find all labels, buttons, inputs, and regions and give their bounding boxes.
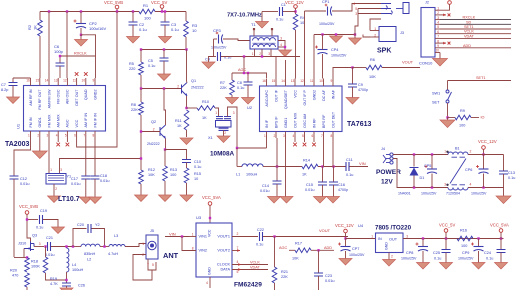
svg-text:AM MIX: AM MIX <box>57 114 61 128</box>
svg-text:TA7613: TA7613 <box>347 121 371 128</box>
wire VIN into U3 <box>165 236 189 238</box>
svg-text:0.01u: 0.01u <box>71 182 81 186</box>
svg-text:R8: R8 <box>131 103 136 107</box>
wire pin14 drop <box>48 12 50 79</box>
svg-text:7120504: 7120504 <box>446 192 460 196</box>
svg-text:VOUT2: VOUT2 <box>217 249 230 253</box>
svg-text:5: 5 <box>237 270 239 274</box>
J3 pin wires <box>370 30 379 32</box>
capacitor C17 0.01u <box>81 176 90 179</box>
svg-text:CON10: CON10 <box>419 61 433 66</box>
svg-text:VOUT: VOUT <box>402 60 414 65</box>
op-amp U3 FM62429 IC box <box>196 223 232 277</box>
TA7613 top pins <box>266 79 268 87</box>
capacitor C14 0.01u <box>273 181 282 184</box>
ground below C2 <box>127 37 140 44</box>
svg-text:L1: L1 <box>236 173 240 177</box>
resistor R4 10 <box>293 14 298 30</box>
headphone jack J1 <box>403 3 409 14</box>
svg-text:0.01u: 0.01u <box>260 189 270 193</box>
svg-text:12V: 12V <box>381 179 393 186</box>
capacitor CP2 100u/16V <box>80 12 82 24</box>
resistor R14 1K <box>302 164 318 169</box>
svg-text:11: 11 <box>310 79 314 83</box>
wire VCC_12V to U4 IN <box>346 238 376 240</box>
svg-text:4: 4 <box>293 134 295 138</box>
svg-text:FM MIX: FM MIX <box>47 114 51 127</box>
capacitor CP5 100u/25V <box>431 155 433 170</box>
svg-text:C20: C20 <box>77 223 84 227</box>
resistor R18 100K <box>25 258 30 273</box>
svg-text:3: 3 <box>233 111 235 115</box>
inductor L1 100uH <box>237 166 242 168</box>
svg-text:J310: J310 <box>18 242 26 246</box>
svg-text:SET1: SET1 <box>476 76 486 80</box>
svg-text:7: 7 <box>237 246 239 250</box>
svg-text:Q2: Q2 <box>151 120 156 124</box>
svg-text:0.1u: 0.1u <box>434 257 441 261</box>
wire net SET1 to SW1 <box>448 80 512 82</box>
ground below R15 <box>180 195 193 202</box>
svg-text:9: 9 <box>437 44 439 48</box>
wire SW1 to ground <box>447 103 449 118</box>
svg-text:IN RF: IN RF <box>312 118 316 128</box>
svg-text:C13: C13 <box>508 171 515 175</box>
svg-text:R13: R13 <box>170 168 177 172</box>
svg-text:0.1u: 0.1u <box>276 18 283 22</box>
svg-text:7X7-10.7MHz: 7X7-10.7MHz <box>227 13 262 19</box>
ground below C5 <box>158 74 171 81</box>
wire Q1 base row <box>141 88 182 90</box>
svg-text:DET OUT: DET OUT <box>75 89 79 106</box>
svg-text:CP5: CP5 <box>424 164 431 168</box>
DATA stub net VDAT <box>232 269 268 271</box>
svg-text:0.01u: 0.01u <box>45 253 55 257</box>
svg-text:3: 3 <box>355 12 357 16</box>
svg-text:QUAD/DET: QUAD/DET <box>284 89 288 109</box>
svg-text:SET1: SET1 <box>464 25 474 29</box>
TA7613 bottom pins <box>266 132 268 139</box>
ground below R12 <box>135 195 148 202</box>
svg-text:C23: C23 <box>325 274 332 278</box>
power flag VCC_5VB <box>115 5 119 9</box>
svg-text:100u/25V: 100u/25V <box>331 54 347 58</box>
svg-text:R17: R17 <box>295 242 302 246</box>
svg-text:0.1u: 0.1u <box>171 27 179 32</box>
svg-text:8: 8 <box>192 247 194 251</box>
wire AGC riser <box>243 57 245 74</box>
svg-text:FM IN: FM IN <box>29 117 33 127</box>
svg-text:7: 7 <box>321 134 323 138</box>
svg-text:100uH: 100uH <box>72 268 83 272</box>
wire supply bottom rail <box>393 159 448 188</box>
svg-text:1K: 1K <box>302 173 307 177</box>
svg-text:5: 5 <box>152 263 154 267</box>
ground below C15 <box>314 197 327 204</box>
ground below C25 <box>440 263 453 270</box>
svg-text:9: 9 <box>331 79 333 83</box>
svg-text:C11: C11 <box>346 158 353 162</box>
svg-text:C18: C18 <box>100 174 107 178</box>
wire pin6 VCC loop to rail <box>77 12 117 148</box>
wire supply top rail <box>393 154 448 156</box>
svg-text:6: 6 <box>74 134 76 138</box>
svg-text:Q3: Q3 <box>32 234 37 238</box>
wire pin2 drop to C14 <box>276 138 278 167</box>
wire X1 output riser <box>228 107 238 148</box>
capacitor C25 0.1u <box>445 239 447 250</box>
svg-text:4.7K: 4.7K <box>50 282 58 286</box>
wire Q2 emitter down to junction <box>165 139 167 150</box>
svg-text:IO: IO <box>481 116 485 120</box>
svg-text:8: 8 <box>93 134 95 138</box>
svg-text:R20: R20 <box>10 269 17 273</box>
svg-text:2: 2 <box>437 11 439 15</box>
ground below CON10 <box>433 59 448 66</box>
svg-text:10: 10 <box>300 21 304 25</box>
svg-text:10: 10 <box>82 79 86 83</box>
svg-text:R16: R16 <box>460 229 467 233</box>
svg-text:C14: C14 <box>262 184 269 188</box>
capacitor CP4 100u/25V <box>318 49 328 51</box>
svg-text:0.1u: 0.1u <box>36 226 43 230</box>
svg-text:AGC: AGC <box>238 68 246 72</box>
capacitor C26 <box>62 283 71 286</box>
svg-text:OUT MIX: OUT MIX <box>293 112 297 128</box>
svg-text:4700p: 4700p <box>338 188 348 192</box>
svg-text:100: 100 <box>461 244 467 248</box>
capacitor C1 0.1u <box>262 11 278 13</box>
svg-text:13: 13 <box>291 79 295 83</box>
wire Q1 collector <box>186 81 189 83</box>
svg-text:12: 12 <box>300 79 304 83</box>
capacitor C16 4700p <box>333 167 335 183</box>
capacitor C18 0.01u <box>91 176 100 179</box>
svg-text:GND1: GND1 <box>284 118 288 128</box>
svg-text:J5: J5 <box>150 229 154 233</box>
svg-text:C21: C21 <box>46 236 53 240</box>
ground below C24 <box>495 263 508 270</box>
svg-text:VIN2: VIN2 <box>199 249 207 253</box>
svg-text:5: 5 <box>355 7 357 11</box>
svg-text:CP6: CP6 <box>465 168 472 172</box>
svg-text:3: 3 <box>47 134 49 138</box>
wire pin12 audio riser to CP1 <box>304 11 306 79</box>
svg-text:10: 10 <box>192 28 197 33</box>
svg-text:10M08A: 10M08A <box>210 151 235 158</box>
T1 right pins to ground <box>278 41 285 51</box>
ground on row left <box>330 36 343 43</box>
capacitor C12 0.01u <box>10 176 19 179</box>
T1 bottom pins to IF row <box>254 49 256 57</box>
wire pin7 drop to C15 <box>323 138 325 167</box>
svg-text:0.01u: 0.01u <box>100 179 110 183</box>
svg-text:VCC: VCC <box>208 229 212 237</box>
ground below CP2 <box>80 35 82 40</box>
wire pin8 OUT DET drop <box>332 138 334 167</box>
svg-text:14: 14 <box>45 79 49 83</box>
svg-text:3: 3 <box>444 183 446 187</box>
ground below C8 <box>242 98 255 105</box>
wire Y1 output row to C10 <box>60 158 142 160</box>
svg-text:100: 100 <box>144 16 151 21</box>
svg-text:22K: 22K <box>281 275 288 279</box>
ground below C7 <box>7 97 20 104</box>
svg-text:0.01u: 0.01u <box>20 182 30 186</box>
svg-text:VCC: VCC <box>293 90 297 98</box>
svg-text:1: 1 <box>50 168 52 172</box>
svg-text:AGC/APC: AGC/APC <box>265 90 269 107</box>
wire CP3-C4 left leg <box>213 39 215 57</box>
capacitor C11 0.1u series <box>346 162 349 171</box>
resistor R8 22K <box>140 89 142 103</box>
svg-text:1: 1 <box>28 134 30 138</box>
svg-text:1: 1 <box>252 52 254 56</box>
svg-text:R6: R6 <box>370 58 375 62</box>
svg-text:1: 1 <box>142 242 144 246</box>
wire IF row y57 <box>221 56 232 58</box>
ground below C9 <box>346 98 359 105</box>
svg-text:BPS IF: BPS IF <box>274 116 278 128</box>
inductor L4 100uH vertical <box>66 247 68 249</box>
svg-text:C26: C26 <box>78 284 85 288</box>
svg-text:2: 2 <box>142 253 144 257</box>
svg-text:3: 3 <box>60 168 62 172</box>
svg-text:C12: C12 <box>20 177 27 181</box>
capacitor C13 0.1u <box>503 155 505 172</box>
svg-text:0.1u: 0.1u <box>194 165 201 169</box>
wire net SET1 <box>440 28 511 30</box>
diode D1 1N4001 <box>413 155 415 167</box>
resistor R19 4.7K <box>45 247 47 258</box>
svg-text:R19: R19 <box>50 277 57 281</box>
svg-text:3: 3 <box>283 134 285 138</box>
wire pin13 VCC from R4 <box>295 30 297 79</box>
svg-text:C10: C10 <box>194 160 201 164</box>
svg-text:Q1: Q1 <box>191 79 196 83</box>
svg-text:CP9: CP9 <box>462 251 469 255</box>
resistor R11 1K <box>184 110 189 130</box>
svg-text:J2: J2 <box>425 1 429 5</box>
svg-text:U4: U4 <box>358 223 364 228</box>
resistor R20 470 <box>25 273 30 287</box>
svg-text:C24: C24 <box>484 251 491 255</box>
wire jack to ground row <box>357 9 359 14</box>
svg-text:R21: R21 <box>281 270 288 274</box>
svg-text:J3: J3 <box>400 31 404 35</box>
svg-text:C8: C8 <box>237 81 242 85</box>
svg-text:C5: C5 <box>148 59 153 63</box>
arrow stub pin2 <box>440 14 446 16</box>
wire X1 ground stub <box>223 130 225 136</box>
svg-text:14: 14 <box>281 79 285 83</box>
capacitor C21 0.01u series <box>48 242 51 251</box>
speaker connector J3 <box>379 27 396 42</box>
wire rail right of R1 <box>155 11 186 13</box>
svg-text:CLOCK: CLOCK <box>217 263 231 267</box>
svg-text:GND2: GND2 <box>93 90 97 100</box>
wire net RXCLK to TA2003 <box>60 55 96 57</box>
svg-text:SW1: SW1 <box>432 92 440 96</box>
wire Q2 base <box>141 131 160 133</box>
svg-text:1K: 1K <box>202 116 207 120</box>
resistor R7 22K <box>231 73 233 80</box>
svg-text:8.2p: 8.2p <box>1 88 8 92</box>
svg-text:4700p: 4700p <box>358 88 368 92</box>
svg-text:2: 2 <box>55 187 57 191</box>
node junctions on rail <box>48 10 50 12</box>
svg-text:CP8: CP8 <box>406 251 413 255</box>
svg-text:R9: R9 <box>460 109 465 113</box>
svg-text:4: 4 <box>280 43 282 47</box>
svg-text:VIN1: VIN1 <box>199 235 207 239</box>
svg-text:R14: R14 <box>303 159 310 163</box>
wire pin3 to Y1 <box>48 138 50 174</box>
svg-text:B1: B1 <box>455 147 460 151</box>
svg-text:2: 2 <box>391 255 393 259</box>
svg-text:2N2222: 2N2222 <box>147 142 160 146</box>
svg-text:10K: 10K <box>369 75 376 79</box>
svg-text:6: 6 <box>312 134 314 138</box>
power flag on CON10 pin1 <box>448 1 452 5</box>
wire C1 to ground <box>261 12 263 22</box>
svg-text:10: 10 <box>319 79 323 83</box>
svg-text:OSC AM: OSC AM <box>303 114 307 128</box>
ground below X1 <box>217 136 230 143</box>
svg-text:AM RF IN: AM RF IN <box>29 89 33 106</box>
svg-text:TA2003: TA2003 <box>5 141 29 148</box>
svg-text:3: 3 <box>268 52 270 56</box>
svg-text:IN AF: IN AF <box>331 89 335 99</box>
svg-text:R10: R10 <box>202 100 209 104</box>
wire IF to L1 <box>237 147 267 149</box>
svg-text:FM OSC: FM OSC <box>57 89 61 104</box>
resistor R13 100 <box>164 150 166 167</box>
resistor R15 10 <box>184 168 189 183</box>
wire R14 to C11 <box>318 166 346 168</box>
svg-text:2: 2 <box>37 134 39 138</box>
svg-text:R7: R7 <box>220 81 225 85</box>
svg-text:R5: R5 <box>129 62 134 66</box>
resistor R2 1K <box>39 12 41 21</box>
svg-text:C22: C22 <box>257 228 264 232</box>
wire VIN2 jumper <box>182 237 196 251</box>
wire L2 to L3 <box>100 246 109 248</box>
svg-text:100u/25V: 100u/25V <box>458 257 474 261</box>
svg-text:U3: U3 <box>196 215 202 220</box>
svg-text:VCC_12V: VCC_12V <box>478 139 497 144</box>
svg-text:8: 8 <box>331 134 333 138</box>
capacitor C23 0.01u <box>318 250 320 273</box>
svg-text:6: 6 <box>437 30 439 34</box>
capacitor C24 0.1u <box>500 239 502 250</box>
capacitor CP6 100u/25V <box>483 155 485 170</box>
wire net SD <box>440 23 511 25</box>
ground below R11 <box>180 138 193 145</box>
svg-text:VCC_12V: VCC_12V <box>335 223 354 228</box>
wire Q2 collector riser to base row <box>164 89 166 126</box>
svg-text:FM62429: FM62429 <box>234 282 262 289</box>
svg-text:DATA: DATA <box>220 268 230 272</box>
svg-text:VCC_5VB: VCC_5VB <box>104 0 123 5</box>
svg-text:100p: 100p <box>54 49 64 54</box>
op-amp U1 TA2003 IC box <box>24 86 106 132</box>
jack pin stubs <box>356 3 381 5</box>
svg-text:VIN: VIN <box>169 232 176 237</box>
svg-text:100: 100 <box>170 173 176 177</box>
svg-text:10K: 10K <box>148 173 155 177</box>
svg-text:VCC_5VB: VCC_5VB <box>19 204 38 209</box>
svg-text:1: 1 <box>437 6 439 10</box>
svg-text:0.1u: 0.1u <box>237 86 244 90</box>
capacitor C10 0.1u <box>182 160 191 163</box>
svg-text:1: 1 <box>264 134 266 138</box>
svg-text:OUT IF: OUT IF <box>274 89 278 102</box>
svg-text:OUT DET: OUT DET <box>331 111 335 128</box>
svg-text:GND: GND <box>385 242 389 250</box>
svg-text:11: 11 <box>73 79 77 83</box>
svg-text:VDAT: VDAT <box>464 34 475 38</box>
TA2003 bottom pins <box>30 131 32 138</box>
svg-text:T1: T1 <box>251 22 256 27</box>
svg-text:J4: J4 <box>381 147 385 151</box>
svg-text:VCC_12V: VCC_12V <box>285 0 304 5</box>
wire pin3 GND1 drop <box>285 138 287 197</box>
svg-text:1: 1 <box>192 233 194 237</box>
svg-text:100u/25V: 100u/25V <box>319 22 335 26</box>
svg-text:FM IF IN: FM IF IN <box>93 113 97 128</box>
ground pin2 GND1 <box>39 138 41 152</box>
svg-text:7: 7 <box>83 134 85 138</box>
inductor L2 835nH <box>81 244 100 246</box>
resistor R12 10K <box>139 170 144 184</box>
VOUT2 stub <box>232 250 240 252</box>
svg-text:X1: X1 <box>208 136 213 140</box>
ground below supply rail <box>503 188 505 197</box>
svg-text:5: 5 <box>437 25 439 29</box>
resistor R10 1K <box>187 107 198 109</box>
capacitor CP8 100u/25V <box>422 239 424 247</box>
svg-text:IN IF: IN IF <box>265 119 269 128</box>
wire emitter row to C10 <box>165 150 187 160</box>
svg-text:OUT IF P: OUT IF P <box>303 89 307 105</box>
wire CON10 pin10 to ground <box>439 53 441 59</box>
T1 top pins <box>253 29 255 36</box>
wire CP2 node to pin9 riser <box>81 35 96 56</box>
ground below C14 <box>268 197 281 204</box>
svg-text:100u/25V: 100u/25V <box>421 192 437 196</box>
wire pin11 GND2 riser <box>313 35 315 79</box>
svg-text:DC AF: DC AF <box>322 89 326 101</box>
svg-text:ADD: ADD <box>463 44 471 48</box>
svg-text:100: 100 <box>459 124 465 128</box>
svg-text:22K: 22K <box>131 108 138 112</box>
wire pin1 to C12 <box>14 138 31 177</box>
svg-text:R15: R15 <box>194 172 201 176</box>
svg-text:0.1u: 0.1u <box>486 257 493 261</box>
CLOCK stub net VCLK <box>232 264 268 266</box>
wire gate bias from C12 chain <box>14 257 27 259</box>
svg-text:4: 4 <box>437 21 439 25</box>
svg-text:100u/25V: 100u/25V <box>349 253 365 257</box>
connector J2 CON10 box <box>421 8 435 58</box>
svg-text:2N2222: 2N2222 <box>191 86 204 90</box>
svg-text:VCC_5V: VCC_5V <box>439 223 455 228</box>
svg-text:0.01u: 0.01u <box>305 188 315 192</box>
svg-text:QUAD: QUAD <box>84 89 88 100</box>
ground right of T1 <box>279 50 292 57</box>
svg-text:IN: IN <box>378 237 382 241</box>
